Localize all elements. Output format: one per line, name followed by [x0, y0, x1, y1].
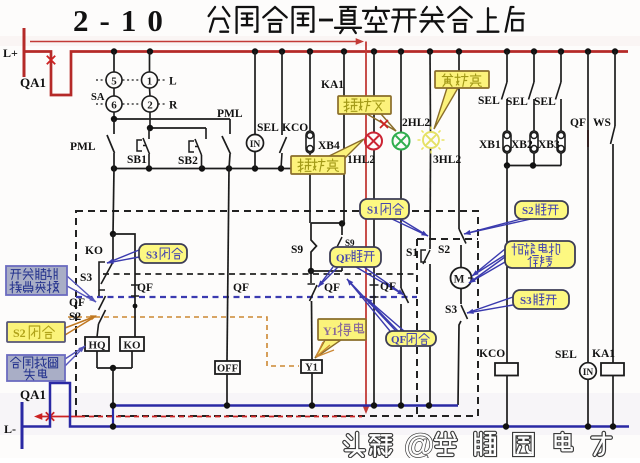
svg-text:OFF: OFF [217, 364, 238, 375]
svg-text:WS: WS [593, 117, 611, 129]
svg-text:SB2: SB2 [178, 155, 198, 167]
svg-text:M: M [454, 274, 465, 286]
svg-text:QF: QF [391, 334, 407, 346]
svg-text:QF: QF [380, 281, 396, 293]
svg-text:KA1: KA1 [321, 79, 344, 91]
svg-text:XB4: XB4 [318, 140, 340, 152]
svg-text:KO: KO [123, 340, 141, 352]
svg-text:S2: S2 [69, 311, 81, 323]
svg-text:IN: IN [583, 368, 594, 378]
svg-text:SEL: SEL [555, 349, 577, 361]
svg-text:QF: QF [233, 282, 249, 294]
svg-text:@: @ [404, 427, 434, 458]
svg-text:SB1: SB1 [127, 154, 147, 166]
svg-text:S9: S9 [291, 244, 303, 256]
svg-text:SA: SA [91, 92, 105, 103]
svg-text:SEL: SEL [506, 96, 528, 108]
svg-text:IN: IN [250, 140, 261, 150]
svg-text:R: R [169, 100, 178, 112]
svg-text:KCO: KCO [479, 348, 505, 360]
svg-text:L-: L- [4, 422, 16, 436]
svg-text:HQ: HQ [88, 340, 106, 352]
svg-text:S9: S9 [345, 238, 355, 248]
svg-text:XB2: XB2 [511, 139, 533, 151]
svg-text:KA1: KA1 [592, 348, 615, 360]
svg-text:S1: S1 [406, 247, 418, 259]
svg-text:Y1: Y1 [323, 324, 338, 338]
svg-text:5: 5 [111, 76, 117, 88]
svg-text:2-10: 2-10 [73, 3, 174, 38]
svg-text:L+: L+ [3, 46, 18, 60]
svg-text:S3: S3 [80, 272, 92, 284]
svg-text:XB3: XB3 [538, 139, 560, 151]
svg-text:2: 2 [147, 100, 153, 112]
svg-text:1: 1 [147, 76, 153, 88]
svg-text:QF: QF [570, 117, 586, 129]
svg-text:XB1: XB1 [479, 139, 501, 151]
svg-text:SEL: SEL [534, 96, 556, 108]
svg-text:KO: KO [85, 245, 103, 257]
svg-text:PML: PML [70, 141, 96, 153]
svg-text:KCO: KCO [282, 122, 308, 134]
svg-text:S3: S3 [146, 250, 158, 262]
svg-text:QF: QF [137, 282, 153, 294]
svg-text:S3: S3 [445, 304, 457, 316]
svg-text:S2: S2 [13, 326, 26, 340]
svg-text:PML: PML [217, 108, 243, 120]
svg-text:QF: QF [324, 282, 340, 294]
svg-text:L: L [169, 76, 177, 88]
svg-text:SEL: SEL [478, 95, 500, 107]
svg-text:2HL2: 2HL2 [402, 117, 430, 129]
svg-text:Y1: Y1 [305, 363, 318, 374]
svg-text:6: 6 [111, 100, 117, 112]
svg-text:1HL2: 1HL2 [347, 154, 375, 166]
svg-text:QA1: QA1 [20, 387, 46, 402]
svg-text:S2: S2 [522, 205, 534, 217]
svg-text:S2: S2 [438, 244, 450, 256]
svg-text:S1: S1 [367, 205, 379, 217]
svg-text:QA1: QA1 [20, 75, 46, 90]
svg-text:QF: QF [69, 297, 85, 309]
svg-text:SEL: SEL [257, 122, 279, 134]
svg-text:QF: QF [336, 253, 352, 265]
svg-text:S3: S3 [520, 295, 532, 307]
svg-text:3HL2: 3HL2 [433, 154, 461, 166]
